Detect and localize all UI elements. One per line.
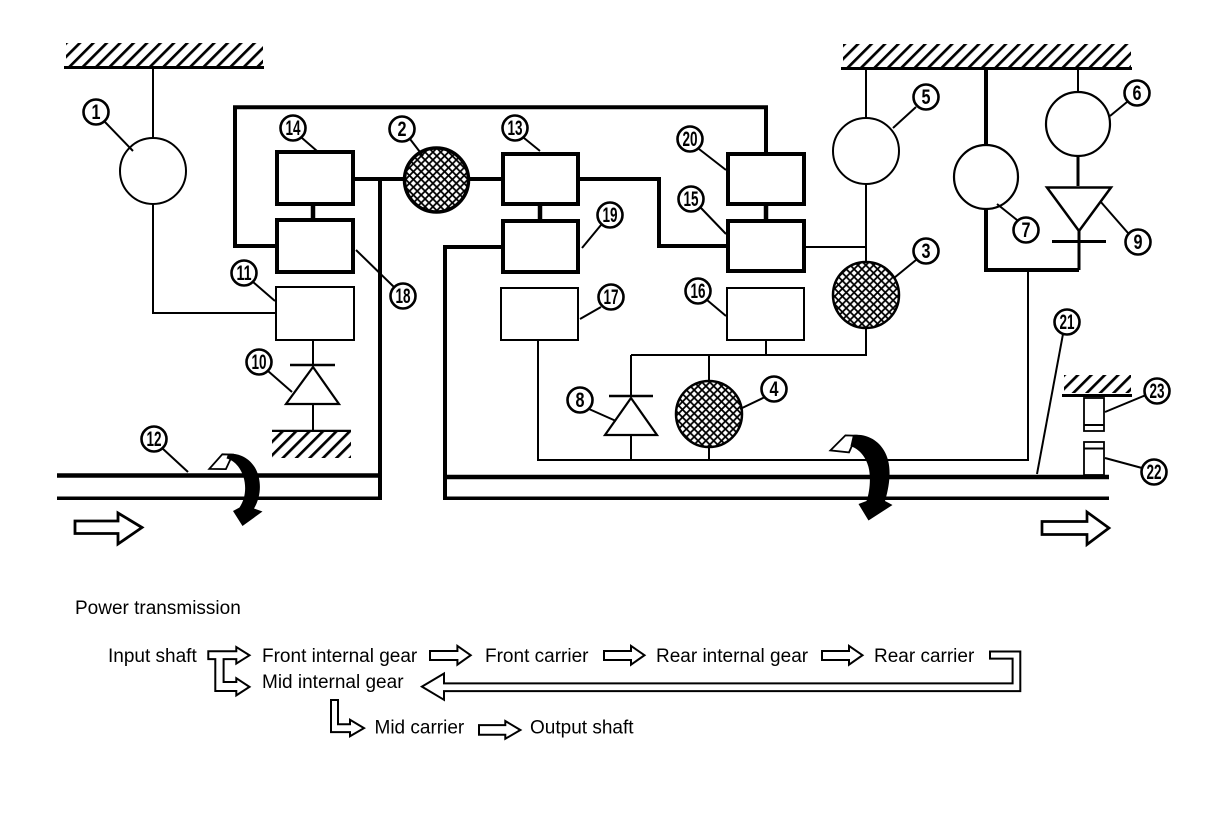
svg-text:Power transmission: Power transmission [75,598,241,619]
box 16 band brake [727,288,804,340]
callout 4 [740,377,787,410]
callout 16 [686,279,727,317]
wire circle 1 to box 11 [153,204,275,313]
callout 5 [893,85,939,129]
rotation arrow 12 ribbon top [209,454,232,469]
svg-text:8: 8 [576,389,585,412]
elbow arrow to Mid carrier [331,700,364,736]
svg-text:5: 5 [922,86,931,109]
svg-text:19: 19 [603,204,618,227]
callout 12 [142,427,189,473]
svg-text:6: 6 [1133,82,1142,105]
wire box14-box18 connector [311,206,316,218]
circle 7 [954,145,1018,209]
svg-text:15: 15 [684,188,699,211]
callout 11 [232,261,276,302]
return arrow to Mid internal gear [422,652,1020,700]
circle 1 input coupling [120,138,186,204]
svg-text:17: 17 [604,286,619,309]
output block arrow [1042,512,1109,545]
crosshatch gear 2 [405,148,469,212]
svg-text:12: 12 [147,428,162,451]
callout 13 [503,116,541,152]
callout 7 [997,204,1039,243]
item 22 spline box [1084,442,1104,475]
wire box14 to crosshatch gear 2 [355,177,404,181]
svg-text:21: 21 [1060,311,1075,334]
wire box19 drop to mid shaft [445,247,501,500]
svg-text:10: 10 [252,351,267,374]
rotation arrow rear ribbon top [830,435,856,452]
rotation arrow 12 crescent [227,454,263,526]
flow arrow 1 [430,646,471,665]
svg-text:Rear carrier: Rear carrier [874,646,975,667]
callout 3 [894,239,939,279]
fork arrow [208,647,249,695]
wire through crosshatch gear 4 [708,355,710,460]
callout 20 [678,127,727,171]
svg-text:3: 3 [922,240,931,263]
flow arrow 3 [822,646,863,665]
one-way clutch 8 [605,355,657,460]
svg-text:9: 9 [1134,231,1143,254]
svg-text:11: 11 [237,262,252,285]
flow arrow 4 [479,721,520,739]
svg-text:2: 2 [398,118,407,141]
callout 19 [582,203,623,249]
callout 9 [1100,201,1151,255]
box 13 clutch [503,154,578,204]
svg-text:13: 13 [508,117,523,140]
thin wire horizontal mid net y355 [631,354,866,356]
wall hatch top-left [64,43,264,68]
wire box13 to box15 [580,179,726,246]
svg-text:Mid carrier: Mid carrier [375,718,465,739]
wire box13-box19 connector [538,206,543,219]
wire circle 5 to crosshatch gear 3 [865,184,867,263]
svg-text:Mid internal gear: Mid internal gear [262,672,404,693]
box 15 clutch [728,221,804,271]
callout 2 [390,117,424,157]
front shaft thick line [57,473,382,478]
svg-text:Front internal gear: Front internal gear [262,646,418,667]
callout 8 [568,388,617,422]
wall hatch right small (near 23) [1062,375,1132,396]
wire crosshatch gear 2 to box 13 [469,177,501,181]
svg-text:16: 16 [691,280,706,303]
svg-text:7: 7 [1022,219,1031,242]
svg-text:18: 18 [396,285,411,308]
box 20 clutch [728,154,804,204]
wall hatch top-right [841,44,1132,69]
svg-text:4: 4 [770,378,779,401]
svg-text:20: 20 [683,128,698,151]
box 17 band brake [501,288,578,340]
wire wall to circle 6 [1077,68,1079,93]
box 18 brake [277,220,353,272]
callout 6 [1110,81,1150,117]
callout 21 [1037,310,1080,475]
item 23 spline box [1084,398,1104,431]
callout 18 [356,250,416,309]
thick wire circle7 bottom bracket [986,209,1079,270]
callout 14 [281,116,318,152]
wire box15 to gear3 line [804,246,866,248]
callout 15 [679,187,727,235]
box 19 clutch [503,221,578,272]
crosshatch gear 3 [833,262,899,328]
front shaft lower line [57,497,382,501]
callout 1 [84,100,134,152]
wire box20-box15 connector [764,206,769,219]
wire gear 3 down [865,328,867,356]
callout 10 [247,350,293,393]
callout 23 [1105,379,1170,413]
ground hatch under diode 10 [272,431,351,458]
rear shaft thick line [443,475,1109,480]
wire vertical drop to front shaft [378,177,382,500]
thin wire net: box17 down, along shaft, up to bracket [538,270,1028,460]
thick top rail wire [235,107,766,246]
wire box16 to mid net [765,340,767,355]
svg-text:Rear internal gear: Rear internal gear [656,646,809,667]
svg-text:1: 1 [92,101,101,124]
svg-text:23: 23 [1150,380,1165,403]
circle 5 [833,118,899,184]
crosshatch gear 4 [676,381,742,447]
one-way clutch 10 [286,340,339,431]
circle 6 [1046,92,1110,156]
box 14 brake [277,152,353,204]
wire wall to circle 5 [865,68,867,119]
thick wire wall to circle 7 [984,68,988,146]
callout 22 [1105,458,1167,485]
box 11 band brake [276,287,354,340]
wire wall to circle 1 [152,67,154,139]
one-way clutch 9 [1047,156,1111,270]
svg-text:Front carrier: Front carrier [485,646,589,667]
svg-text:Input shaft: Input shaft [108,646,197,667]
svg-text:14: 14 [286,117,301,140]
callout 17 [580,285,624,320]
svg-text:22: 22 [1147,461,1162,484]
rotation arrow rear crescent [851,435,893,521]
flow arrow 2 [604,646,645,665]
input block arrow [75,513,142,544]
svg-text:Output shaft: Output shaft [530,718,634,739]
rear shaft lower line [447,497,1109,501]
